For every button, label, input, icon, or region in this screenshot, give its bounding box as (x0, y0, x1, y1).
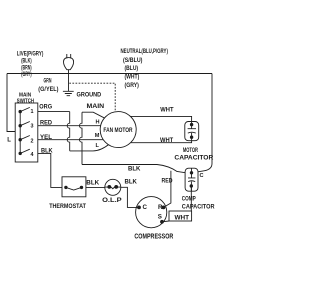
svg-text:YEL: YEL (40, 134, 52, 141)
svg-text:GRN: GRN (44, 77, 52, 84)
svg-text:BLK: BLK (86, 180, 99, 187)
svg-text:SWITCH: SWITCH (17, 98, 34, 104)
plug cord wire (68, 70, 70, 92)
outer box right edge (neutral) (198, 74, 212, 172)
wire MAIN stub to motor top-left (82, 112, 106, 119)
svg-text:3: 3 (31, 124, 34, 130)
wire motor common dive with hops (80, 112, 83, 164)
svg-text:LIVE(P/GRY): LIVE(P/GRY) (17, 52, 44, 58)
wire thermostat to OLP (86, 186, 106, 188)
O.L.P overload protector circle (105, 179, 121, 195)
svg-text:RED: RED (40, 119, 52, 126)
wire ORG bottom run to motor L entry (70, 144, 110, 151)
svg-text:2: 2 (31, 138, 34, 144)
svg-text:O.L.P: O.L.P (102, 197, 122, 204)
wire ORG: switch 1 to x=69.7 (38, 111, 70, 113)
compressor terminal dots (137, 206, 165, 224)
svg-text:(BRN): (BRN) (21, 65, 31, 71)
svg-text:1: 1 (31, 109, 34, 115)
svg-text:S: S (158, 213, 162, 220)
wire RED: switch 3 to motor (38, 125, 105, 127)
switch common bus (19, 112, 21, 154)
svg-text:BLK: BLK (125, 178, 138, 185)
svg-text:(GRY): (GRY) (125, 83, 139, 89)
svg-text:4: 4 (31, 152, 34, 158)
switch blade 3 (20, 122, 30, 126)
svg-text:R: R (158, 204, 163, 211)
wire OLP to compressor C (121, 187, 139, 207)
svg-text:WHT: WHT (175, 214, 190, 221)
switch contact dots (19, 110, 22, 155)
comp capacitor plates (188, 168, 195, 191)
plug prongs (67, 54, 71, 58)
svg-text:GROUND: GROUND (77, 92, 102, 99)
wire WHT bottom: motor to motor capacitor (131, 137, 192, 143)
WHT label box on S wire (169, 211, 192, 221)
svg-text:(WHT): (WHT) (125, 74, 140, 80)
plug body (64, 58, 74, 70)
svg-text:WHT: WHT (160, 107, 173, 114)
svg-text:BLK: BLK (41, 147, 53, 154)
thermostat box (62, 177, 86, 197)
switch blade 4 (20, 149, 30, 153)
outer box left edge (live feed L) (7, 74, 15, 132)
svg-text:H: H (96, 120, 100, 126)
svg-text:M: M (95, 133, 100, 139)
O.L.P element (105, 187, 121, 189)
motor capacitor body (185, 122, 199, 141)
svg-text:WHT: WHT (160, 137, 173, 144)
svg-text:(BLK): (BLK) (21, 59, 31, 65)
compressor circle (136, 197, 167, 228)
main switch box (15, 103, 38, 162)
wire RED drop to compressor R (164, 171, 171, 208)
svg-text:RED: RED (162, 177, 173, 184)
wire S to WHT box (162, 220, 169, 223)
svg-text:L: L (7, 137, 11, 143)
wire comp capacitor bottom to WHT box (190, 186, 192, 211)
svg-text:MAIN: MAIN (87, 103, 105, 110)
svg-text:(GRY): (GRY) (21, 72, 31, 78)
svg-text:BLK: BLK (128, 166, 141, 173)
svg-text:CAPACITOR: CAPACITOR (174, 154, 213, 161)
wire BLK common long run to comp capacitor (82, 165, 185, 173)
comp capacitor body (185, 168, 198, 191)
wire BLK: switch 4 to thermostat (38, 153, 62, 187)
switch blade 2 (20, 136, 30, 140)
svg-text:(G/YEL): (G/YEL) (38, 86, 58, 93)
svg-text:COMPRESSOR: COMPRESSOR (134, 234, 173, 241)
svg-text:L: L (96, 143, 100, 149)
ground symbol (63, 91, 74, 95)
switch blade 1 (20, 107, 30, 111)
fan motor circle (100, 112, 136, 148)
wire WHT top: motor to motor capacitor (130, 116, 191, 124)
svg-text:C: C (143, 204, 148, 211)
wire YEL: switch 2 to motor (38, 139, 105, 141)
svg-text:THERMOSTAT: THERMOSTAT (49, 203, 86, 210)
svg-text:(BLU): (BLU) (125, 66, 139, 72)
svg-text:MOTOR: MOTOR (183, 147, 198, 154)
thermostat contacts (66, 187, 82, 190)
dashed earth line to fan motor frame (69, 83, 115, 112)
wire ORG dive with hops over RED and YEL (67, 112, 70, 151)
outer box top border (7, 73, 212, 75)
svg-text:C: C (200, 173, 204, 179)
svg-text:(S/BLU): (S/BLU) (123, 58, 142, 64)
svg-text:NEUTRAL(BLU,P/GRY): NEUTRAL(BLU,P/GRY) (121, 49, 168, 55)
svg-text:FAN MOTOR: FAN MOTOR (103, 127, 132, 134)
svg-text:CAPACITOR: CAPACITOR (182, 203, 215, 210)
svg-text:COMP: COMP (182, 195, 197, 202)
svg-text:ORG: ORG (39, 104, 52, 111)
motor capacitor plates (188, 122, 196, 141)
